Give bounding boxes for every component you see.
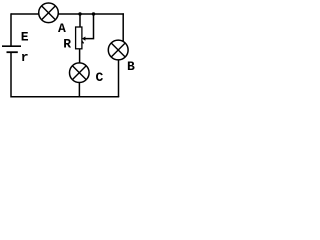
wire resistor bottom to lamp C — [79, 49, 81, 63]
wire right side down to lamp B — [122, 13, 124, 41]
node junction dot 1 — [78, 12, 81, 15]
svg-text:E: E — [21, 29, 29, 44]
wire bottom — [11, 96, 119, 98]
svg-text:B: B — [127, 59, 135, 74]
battery long plate — [2, 45, 21, 47]
resistor R body — [76, 27, 82, 49]
wire left upper (corner to battery) — [10, 13, 12, 46]
svg-text:R: R — [63, 36, 71, 51]
svg-text:C: C — [96, 70, 104, 85]
wire top-left (from left corner to lamp A) — [11, 13, 39, 15]
wire lamp B to bottom wire — [118, 60, 120, 97]
lamp B — [108, 40, 128, 60]
svg-text:r: r — [21, 50, 29, 65]
wire lamp C to bottom wire — [78, 82, 80, 97]
wiper arm wire (junction 2 down and left) — [84, 14, 93, 39]
lamp C — [70, 63, 90, 83]
battery short plate — [7, 51, 18, 53]
svg-text:A: A — [58, 21, 66, 36]
wire left lower (battery to bottom corner) — [10, 52, 12, 97]
wire top-right (lamp A to right corner) — [58, 13, 124, 15]
lamp A — [39, 3, 59, 23]
wire junction 1 down to resistor — [79, 14, 81, 27]
wiper arrow tail tick — [82, 41, 84, 43]
node junction dot 2 — [92, 12, 95, 15]
wiper arrowhead — [82, 37, 86, 41]
